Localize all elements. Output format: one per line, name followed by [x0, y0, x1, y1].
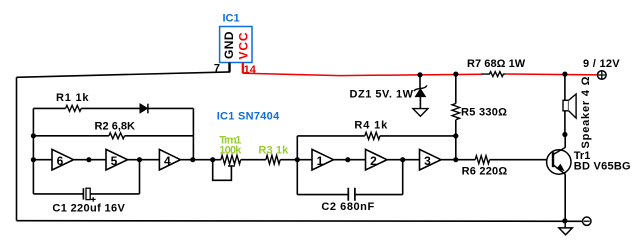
- wire emitter to ground rail: [564, 174, 566, 221]
- svg-text:BD V65BG: BD V65BG: [574, 161, 631, 173]
- wire zener branch from VCC rail: [419, 75, 421, 89]
- svg-text:9 / 12V: 9 / 12V: [583, 58, 620, 70]
- resistor R1: [66, 105, 82, 111]
- node speaker tap on VCC rail: [562, 72, 567, 77]
- node gate1-gate2 junction: [345, 157, 350, 162]
- node R2 left junction: [31, 133, 36, 138]
- wire block2 left vertical (gate1 input node): [296, 136, 298, 195]
- svg-text:4: 4: [164, 154, 171, 168]
- resistor R3: [266, 155, 280, 164]
- wire main row block1: [33, 159, 221, 161]
- svg-text:R2 6,8K: R2 6,8K: [95, 121, 136, 133]
- wire C2 bottom branch: [297, 160, 402, 195]
- node gate5 output / C1 junction: [137, 157, 142, 162]
- svg-text:2: 2: [370, 154, 377, 168]
- svg-text:1: 1: [317, 154, 324, 168]
- transistor Tr1: [547, 150, 571, 174]
- positive supply terminal: [598, 71, 607, 80]
- svg-text:C1 220uf 16V: C1 220uf 16V: [52, 202, 125, 214]
- wire block1 right vertical (gate4 output to feedback): [192, 108, 194, 159]
- svg-text:100k: 100k: [219, 145, 242, 157]
- wire VCC rail (red) pin14 to R7: [243, 73, 481, 75]
- wire block1 left vertical (gate 6 input node): [32, 108, 34, 193]
- wire main row block2: [297, 159, 475, 161]
- wire R4 feedback top: [297, 135, 456, 137]
- node gate6 input junction: [31, 157, 36, 162]
- wire bottom ground rail: [17, 220, 583, 223]
- svg-text:R7 68Ω 1W: R7 68Ω 1W: [467, 58, 526, 70]
- node gate6-gate5 junction: [86, 157, 91, 162]
- IC U1 (IC1 SN7404) power pins box: [220, 27, 252, 63]
- ground symbol (emitter): [564, 221, 566, 228]
- wire collector to speaker: [564, 135, 566, 148]
- capacitor C1 (electrolytic): [82, 188, 84, 199]
- node gate3 output junction: [453, 157, 458, 162]
- diode D1: [140, 104, 147, 113]
- wire GND from pin 7 to left rail: [17, 72, 231, 77]
- svg-text:5: 5: [111, 154, 118, 168]
- pin 14: [242, 63, 244, 74]
- wire speaker top from VCC rail: [564, 74, 566, 134]
- node gate2 output / C2 junction: [400, 157, 405, 162]
- wire R2 feedback: [33, 135, 193, 137]
- inverter gate 1: [312, 149, 334, 170]
- node trimmer wiper junction: [210, 157, 215, 162]
- wire R1/diode feedback top: [33, 107, 193, 109]
- node speaker/collector junction: [562, 132, 567, 137]
- wire R6 to base: [490, 159, 547, 161]
- svg-text:R6 220Ω: R6 220Ω: [462, 166, 508, 178]
- wire C1 bottom branch: [33, 160, 139, 194]
- svg-text:GND: GND: [222, 31, 236, 59]
- speaker LS1: [563, 100, 569, 111]
- wire trimmer to R3: [241, 159, 266, 161]
- pin 7: [228, 63, 230, 72]
- resistor R2: [109, 133, 125, 139]
- resistor R6: [475, 156, 489, 164]
- node R5 tap on VCC rail: [453, 72, 458, 77]
- resistor R5: [452, 104, 460, 120]
- inverter gate 2: [366, 149, 388, 170]
- svg-text:DZ1 5V. 1W: DZ1 5V. 1W: [350, 89, 414, 101]
- svg-text:VCC: VCC: [236, 32, 250, 59]
- wire R5 branch: [455, 74, 457, 136]
- svg-text:3: 3: [424, 154, 431, 168]
- negative supply terminal: [583, 217, 591, 225]
- svg-text:R3 1k: R3 1k: [258, 145, 289, 157]
- svg-text:R5 330Ω: R5 330Ω: [461, 107, 507, 119]
- svg-text:R1 1k: R1 1k: [56, 92, 89, 104]
- svg-text:Speaker 4 Ω: Speaker 4 Ω: [580, 76, 592, 148]
- inverter gate 4: [159, 149, 180, 170]
- node zener tap on VCC rail: [417, 72, 422, 77]
- resistor R4: [365, 132, 380, 139]
- inverter gate 5: [106, 149, 128, 170]
- svg-text:C2 680nF: C2 680nF: [321, 201, 374, 213]
- wire R4/R5 junction vertical to gate3 output: [455, 136, 457, 160]
- svg-text:IC1 SN7404: IC1 SN7404: [217, 111, 280, 123]
- wire R3 to gate1 input: [280, 159, 297, 161]
- svg-text:IC1: IC1: [222, 13, 239, 25]
- svg-text:R4 1k: R4 1k: [354, 119, 388, 131]
- inverter gate 3: [420, 149, 442, 170]
- node emitter ground junction: [562, 218, 567, 223]
- trimmer Trm1: [221, 155, 241, 164]
- wire left ground rail: [16, 77, 18, 220]
- zener diode DZ1: [415, 89, 425, 97]
- capacitor C2: [348, 188, 355, 201]
- node gate1 input junction: [295, 157, 300, 162]
- node R4/R5 junction: [453, 133, 458, 138]
- ground symbol (zener): [413, 109, 428, 117]
- wire VCC rail (red) R7 to +terminal: [506, 73, 598, 76]
- svg-text:6: 6: [57, 154, 64, 168]
- inverter gate 6: [52, 149, 74, 170]
- resistor R7: [481, 72, 506, 77]
- node gate4 output feedback junction: [190, 157, 195, 162]
